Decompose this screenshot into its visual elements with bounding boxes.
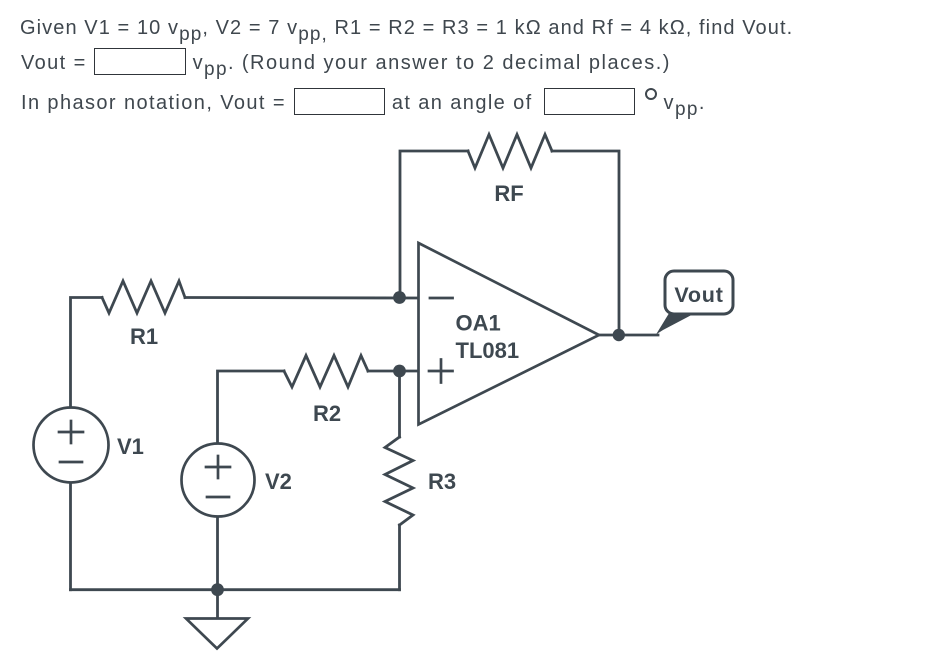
- wire: V1 top up and right to R1: [71, 298, 103, 408]
- svg-text:OA1: OA1: [456, 311, 501, 336]
- wire: R2 to op-amp non-inverting input: [368, 370, 419, 373]
- V2 plus/minus polarity marks: [206, 456, 230, 497]
- junction node: inverting input: [393, 291, 406, 304]
- wire: RF right down to output node: [552, 151, 619, 335]
- svg-text:R3: R3: [428, 469, 456, 494]
- Vout callout box: [665, 271, 733, 314]
- resistor RF: [468, 135, 552, 169]
- ground: [186, 619, 248, 649]
- question line 2 with answer box: [21, 52, 671, 75]
- Vout callout tail: [656, 310, 701, 335]
- source V1: [34, 408, 109, 483]
- V1 plus/minus polarity marks: [59, 421, 83, 462]
- wire: V2 bottom down to ground rail: [216, 516, 219, 590]
- wire: ground stub: [216, 590, 219, 619]
- svg-text:V2: V2: [265, 469, 292, 494]
- op-amp inverting input minus symbol: [430, 297, 453, 300]
- resistor R3: [385, 437, 413, 525]
- wire: R1 to op-amp inverting input: [185, 296, 419, 299]
- wire: inverting node up to RF left: [400, 151, 468, 298]
- wire: V1 bottom down to ground rail: [69, 483, 72, 590]
- junction node: non-inverting input: [393, 365, 406, 378]
- svg-text:TL081: TL081: [456, 338, 520, 363]
- junction node: output: [613, 329, 625, 341]
- svg-text:Vout: Vout: [674, 283, 723, 307]
- resistor R2: [284, 356, 368, 388]
- question line 1: [20, 17, 793, 40]
- svg-text:R1: R1: [130, 324, 158, 349]
- op-amp OA1 triangle: [419, 243, 600, 425]
- resistor R1: [102, 281, 185, 313]
- source V2: [182, 444, 255, 517]
- wire: bottom ground rail: [71, 588, 400, 591]
- svg-text:R2: R2: [313, 401, 341, 426]
- svg-text:V1: V1: [117, 434, 144, 459]
- question line 3 with two answer boxes: [21, 92, 706, 115]
- wire: V2 top up and right to R2: [218, 371, 285, 444]
- op-amp non-inverting input plus symbol: [429, 360, 453, 383]
- wire: op-amp output to Vout tail: [598, 334, 658, 337]
- junction node: ground rail: [211, 583, 224, 596]
- wire: non-inverting node down to R3: [398, 371, 401, 437]
- svg-text:RF: RF: [494, 181, 523, 206]
- wire: R3 bottom to ground rail: [398, 525, 401, 590]
